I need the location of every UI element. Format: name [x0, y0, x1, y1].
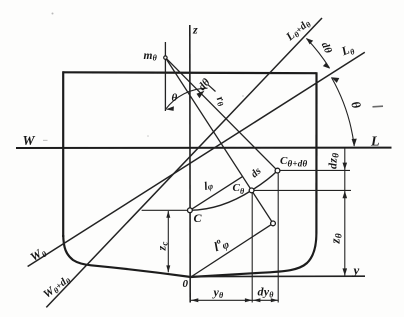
z axis [189, 25, 191, 303]
dtheta arc top right between Ltheta+dtheta and Ltheta [307, 39, 330, 69]
z_c extension line at C level [142, 209, 188, 211]
point B on lever line [271, 221, 276, 226]
y axis [191, 275, 365, 277]
extension line below Cθ+dθ [277, 174, 279, 303]
buoyancy normal mθ-Cθ extended to B [165, 58, 273, 224]
svg-text:y: y [352, 263, 360, 278]
dtheta bottom arrowhead on Ltheta [323, 62, 330, 68]
theta arc at metacenter [165, 88, 207, 109]
point C [188, 208, 193, 213]
dzθ bottom arrowhead down at Cθ+dθ level [343, 163, 348, 170]
theta arc right between Ltheta and L [332, 78, 355, 147]
z_c top arrowhead [166, 211, 170, 218]
svg-text:0: 0 [183, 278, 189, 290]
right dimension line dzθ / zθ [344, 148, 346, 276]
svg-text:L: L [370, 135, 380, 150]
z_c bottom arrowhead [166, 265, 170, 272]
paper speck [147, 135, 149, 137]
hull outline: right wall [315, 72, 317, 233]
dtheta arc arrowhead on line B [197, 91, 205, 99]
dyθ left arrowhead [253, 298, 260, 302]
paper speck [242, 95, 244, 97]
dyθ right arrowhead [271, 298, 278, 302]
buoyancy normal mθ-Cθ+dθ [165, 58, 277, 171]
hull outline: bottom with keel at O [63, 233, 316, 277]
extension line from Cθ+dθ to right [278, 169, 351, 171]
inclined waterline Wθ-Lθ [28, 52, 365, 266]
zθ bottom arrowhead down at y axis [343, 268, 348, 275]
hull outline: left wall [62, 71, 64, 237]
yθ left arrowhead [191, 298, 198, 302]
bottom dimension line yθ / dyθ [190, 299, 278, 301]
dash right of theta [373, 105, 384, 108]
point Cθ [249, 188, 254, 193]
svg-text:θ: θ [172, 92, 178, 104]
svg-text:W: W [23, 133, 36, 148]
yθ right arrowhead [245, 298, 252, 302]
zθ top arrowhead up at Cθ level [343, 191, 348, 198]
extension line from Cθ to right [252, 189, 351, 191]
dtheta top arrowhead on Ltheta+dtheta [306, 38, 313, 44]
theta right top arrowhead [331, 77, 339, 83]
lever lφ from C [190, 177, 243, 211]
stray leader near r theta label [208, 84, 216, 91]
hull outline: deck [63, 71, 316, 74]
extension line below Cθ [251, 193, 253, 303]
paper speck [52, 13, 54, 15]
theta arc left arrowhead [166, 106, 174, 111]
svg-text:C: C [194, 211, 203, 225]
paper speck [43, 140, 48, 141]
z_c dimension line [167, 211, 169, 272]
point mθ [164, 56, 167, 59]
theta right bottom arrowhead [352, 139, 357, 147]
waterline W-L [16, 147, 392, 149]
buoyancy curve C-Cθ-Cθ+dθ [190, 171, 278, 211]
inclined waterline Wθ+dθ - Lθ+dθ [46, 18, 322, 307]
lever lφ° from O to B [191, 223, 273, 277]
svg-text:z: z [192, 23, 198, 37]
point Cθ+dθ [275, 168, 280, 173]
vertical through metacenter [164, 42, 166, 111]
